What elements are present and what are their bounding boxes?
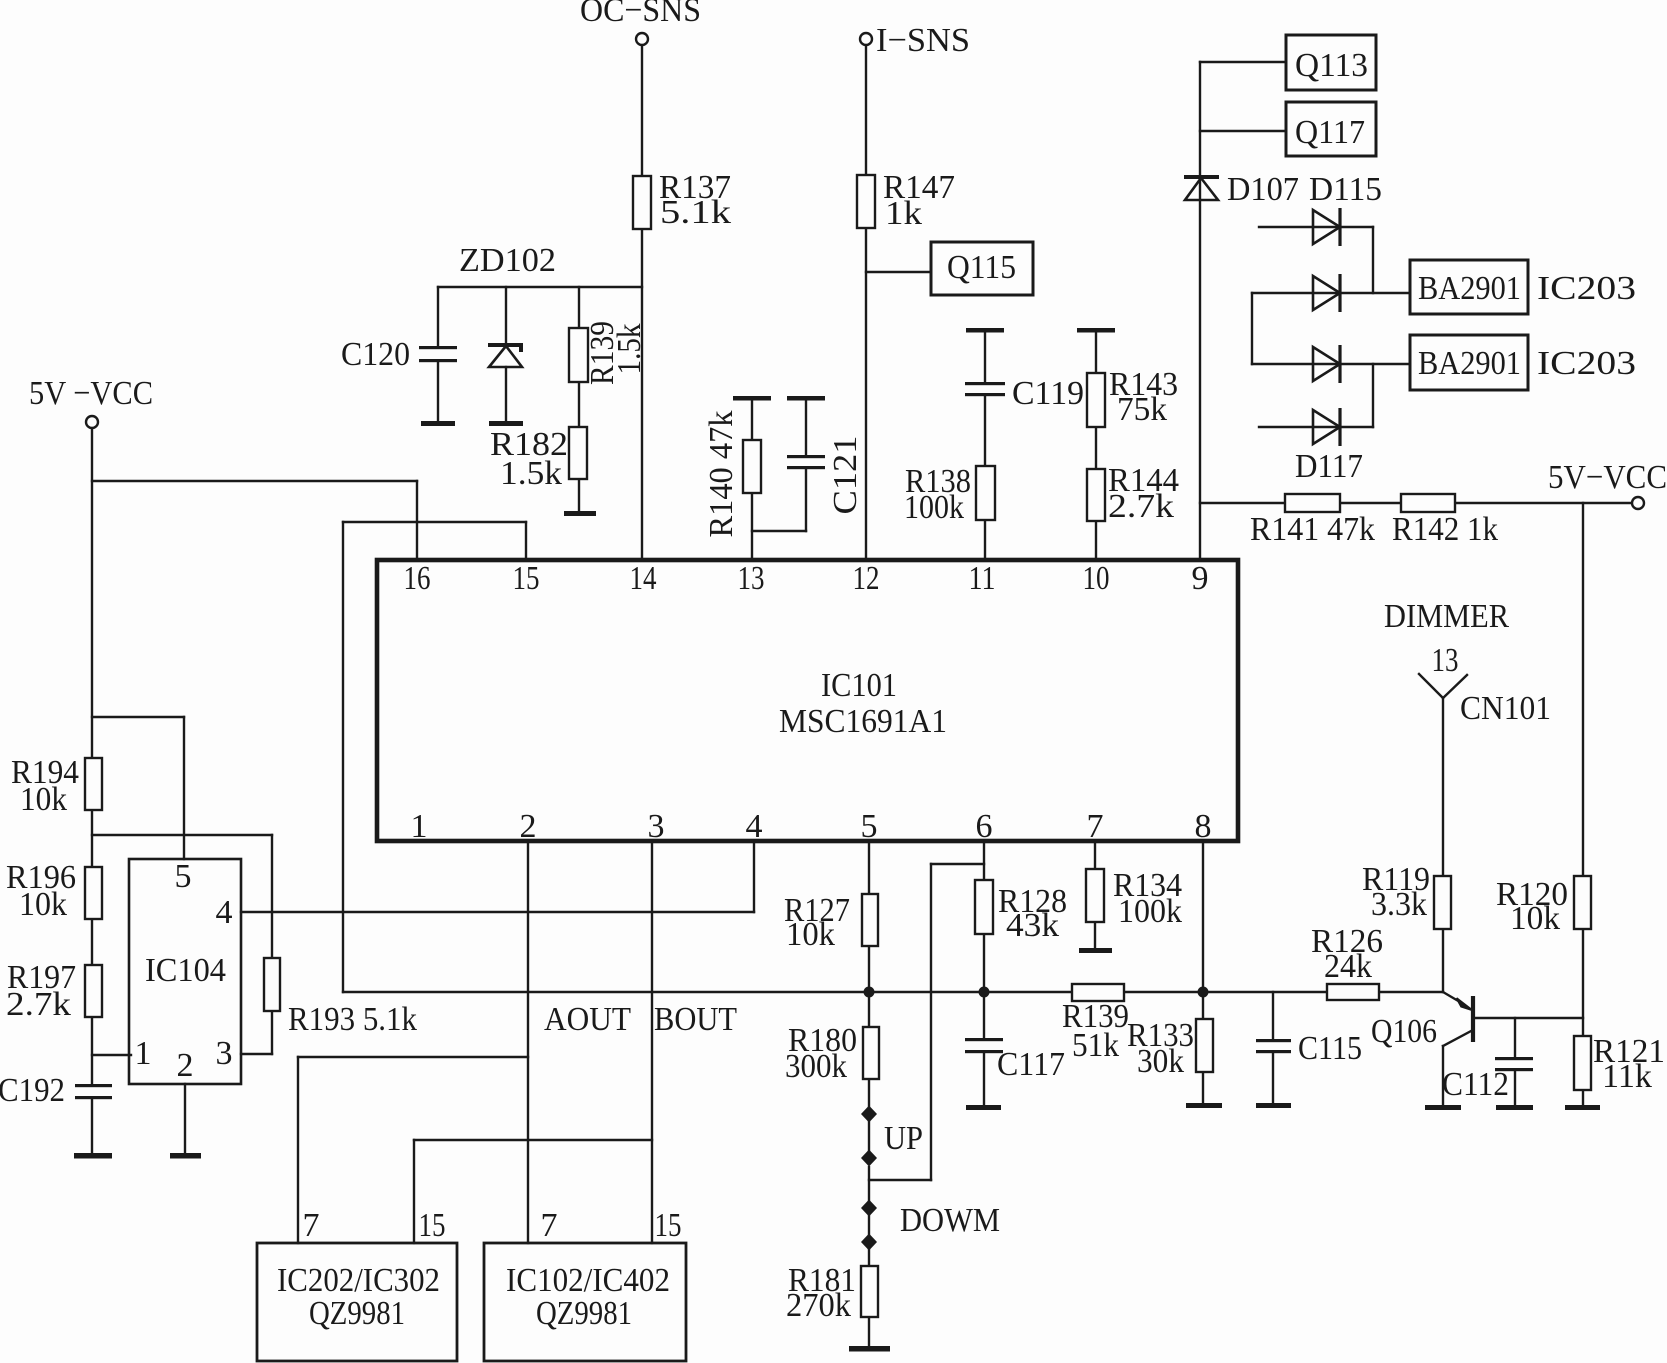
svg-text:15: 15 — [655, 1207, 682, 1244]
svg-text:300k: 300k — [785, 1048, 847, 1085]
svg-text:5V −VCC: 5V −VCC — [29, 375, 153, 412]
svg-text:IC102/IC402: IC102/IC402 — [506, 1262, 670, 1299]
svg-text:13: 13 — [738, 560, 765, 597]
svg-text:C121: C121 — [827, 436, 864, 515]
svg-text:MSC1691A1: MSC1691A1 — [779, 703, 947, 740]
svg-text:100k: 100k — [1118, 893, 1182, 930]
svg-text:11: 11 — [969, 560, 996, 597]
svg-text:Q115: Q115 — [947, 249, 1016, 286]
svg-text:11k: 11k — [1602, 1058, 1652, 1095]
svg-text:7: 7 — [1087, 808, 1104, 845]
svg-text:BOUT: BOUT — [654, 1001, 737, 1038]
svg-text:C112: C112 — [1442, 1066, 1509, 1103]
svg-text:R141 47k: R141 47k — [1250, 511, 1375, 548]
svg-text:QZ9981: QZ9981 — [309, 1295, 405, 1332]
svg-text:IC203: IC203 — [1537, 270, 1636, 307]
svg-text:D107: D107 — [1227, 171, 1299, 208]
svg-text:15: 15 — [513, 560, 540, 597]
svg-text:DIMMER: DIMMER — [1384, 598, 1509, 635]
svg-text:9: 9 — [1192, 560, 1209, 597]
svg-text:AOUT: AOUT — [544, 1001, 631, 1038]
svg-text:IC104: IC104 — [145, 952, 226, 989]
svg-text:2.7k: 2.7k — [6, 986, 71, 1023]
svg-text:IC202/IC302: IC202/IC302 — [277, 1262, 440, 1299]
svg-text:10k: 10k — [19, 886, 67, 923]
svg-text:BA2901: BA2901 — [1418, 270, 1521, 307]
svg-text:3: 3 — [648, 808, 665, 845]
svg-text:16: 16 — [404, 560, 431, 597]
svg-text:75k: 75k — [1117, 391, 1167, 428]
svg-text:Q106: Q106 — [1371, 1013, 1437, 1050]
svg-text:1k: 1k — [885, 195, 922, 232]
svg-text:Q113: Q113 — [1295, 47, 1368, 84]
svg-text:24k: 24k — [1324, 948, 1372, 985]
svg-text:4: 4 — [746, 808, 763, 845]
svg-text:12: 12 — [853, 560, 880, 597]
svg-text:100k: 100k — [904, 489, 964, 526]
svg-text:10: 10 — [1083, 560, 1110, 597]
svg-text:OC−SNS: OC−SNS — [580, 0, 701, 29]
svg-text:2: 2 — [177, 1047, 194, 1084]
svg-text:C119: C119 — [1012, 375, 1084, 412]
svg-text:R142 1k: R142 1k — [1392, 511, 1498, 548]
svg-text:7: 7 — [303, 1207, 320, 1244]
svg-text:R140 47k: R140 47k — [703, 411, 740, 538]
svg-text:C117: C117 — [997, 1046, 1065, 1083]
svg-text:10k: 10k — [20, 781, 67, 818]
svg-text:R193 5.1k: R193 5.1k — [288, 1001, 417, 1038]
svg-text:6: 6 — [976, 808, 993, 845]
svg-text:Q117: Q117 — [1295, 114, 1365, 151]
svg-text:5: 5 — [175, 858, 192, 895]
svg-text:2.7k: 2.7k — [1108, 488, 1174, 525]
svg-text:14: 14 — [630, 560, 657, 597]
svg-text:QZ9981: QZ9981 — [536, 1295, 632, 1332]
svg-text:5V−VCC: 5V−VCC — [1548, 459, 1667, 496]
svg-text:3: 3 — [216, 1035, 233, 1072]
svg-text:IC203: IC203 — [1537, 345, 1636, 382]
svg-text:13: 13 — [1432, 642, 1459, 679]
svg-text:C120: C120 — [341, 336, 410, 373]
svg-text:C192: C192 — [0, 1072, 65, 1109]
svg-text:D115: D115 — [1309, 171, 1382, 208]
svg-text:51k: 51k — [1072, 1027, 1119, 1064]
svg-text:I−SNS: I−SNS — [876, 22, 970, 59]
svg-text:5: 5 — [861, 808, 878, 845]
svg-text:4: 4 — [216, 894, 233, 931]
svg-text:5.1k: 5.1k — [660, 194, 731, 231]
svg-text:UP: UP — [884, 1120, 923, 1157]
svg-text:270k: 270k — [786, 1287, 851, 1324]
svg-text:1: 1 — [411, 808, 428, 845]
svg-text:1: 1 — [135, 1035, 152, 1072]
svg-text:7: 7 — [541, 1207, 558, 1244]
svg-text:30k: 30k — [1137, 1043, 1184, 1080]
svg-text:1.5k: 1.5k — [611, 324, 648, 375]
svg-text:10k: 10k — [786, 916, 835, 953]
svg-text:10k: 10k — [1510, 900, 1560, 937]
svg-text:D117: D117 — [1295, 448, 1363, 485]
svg-text:43k: 43k — [1006, 907, 1059, 944]
svg-text:8: 8 — [1195, 808, 1212, 845]
svg-text:C115: C115 — [1298, 1030, 1362, 1067]
svg-text:3.3k: 3.3k — [1371, 886, 1427, 923]
svg-text:BA2901: BA2901 — [1418, 345, 1521, 382]
svg-text:CN101: CN101 — [1460, 690, 1551, 727]
svg-text:2: 2 — [520, 808, 537, 845]
svg-text:1.5k: 1.5k — [500, 455, 562, 492]
svg-text:ZD102: ZD102 — [459, 242, 556, 279]
svg-text:15: 15 — [419, 1207, 446, 1244]
svg-text:DOWM: DOWM — [900, 1202, 1000, 1239]
svg-text:IC101: IC101 — [821, 667, 897, 704]
